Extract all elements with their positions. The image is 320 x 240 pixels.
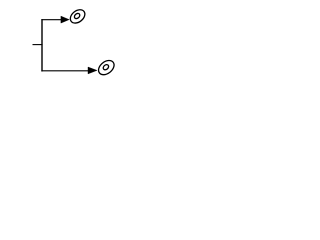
arrowhead: top branch xyxy=(61,16,69,23)
wire: bottom branch xyxy=(41,70,89,72)
wire: top branch xyxy=(41,19,62,21)
node: bottom state symbol, outer ellipse xyxy=(96,58,117,78)
node: bottom state symbol, inner ellipse xyxy=(102,64,109,71)
wire: left input stub xyxy=(33,44,43,46)
arrowhead: bottom branch xyxy=(88,67,97,74)
node: top state symbol, outer ellipse xyxy=(68,7,88,26)
node: top state symbol, inner ellipse xyxy=(73,12,80,19)
wire: vertical bus xyxy=(41,19,43,71)
